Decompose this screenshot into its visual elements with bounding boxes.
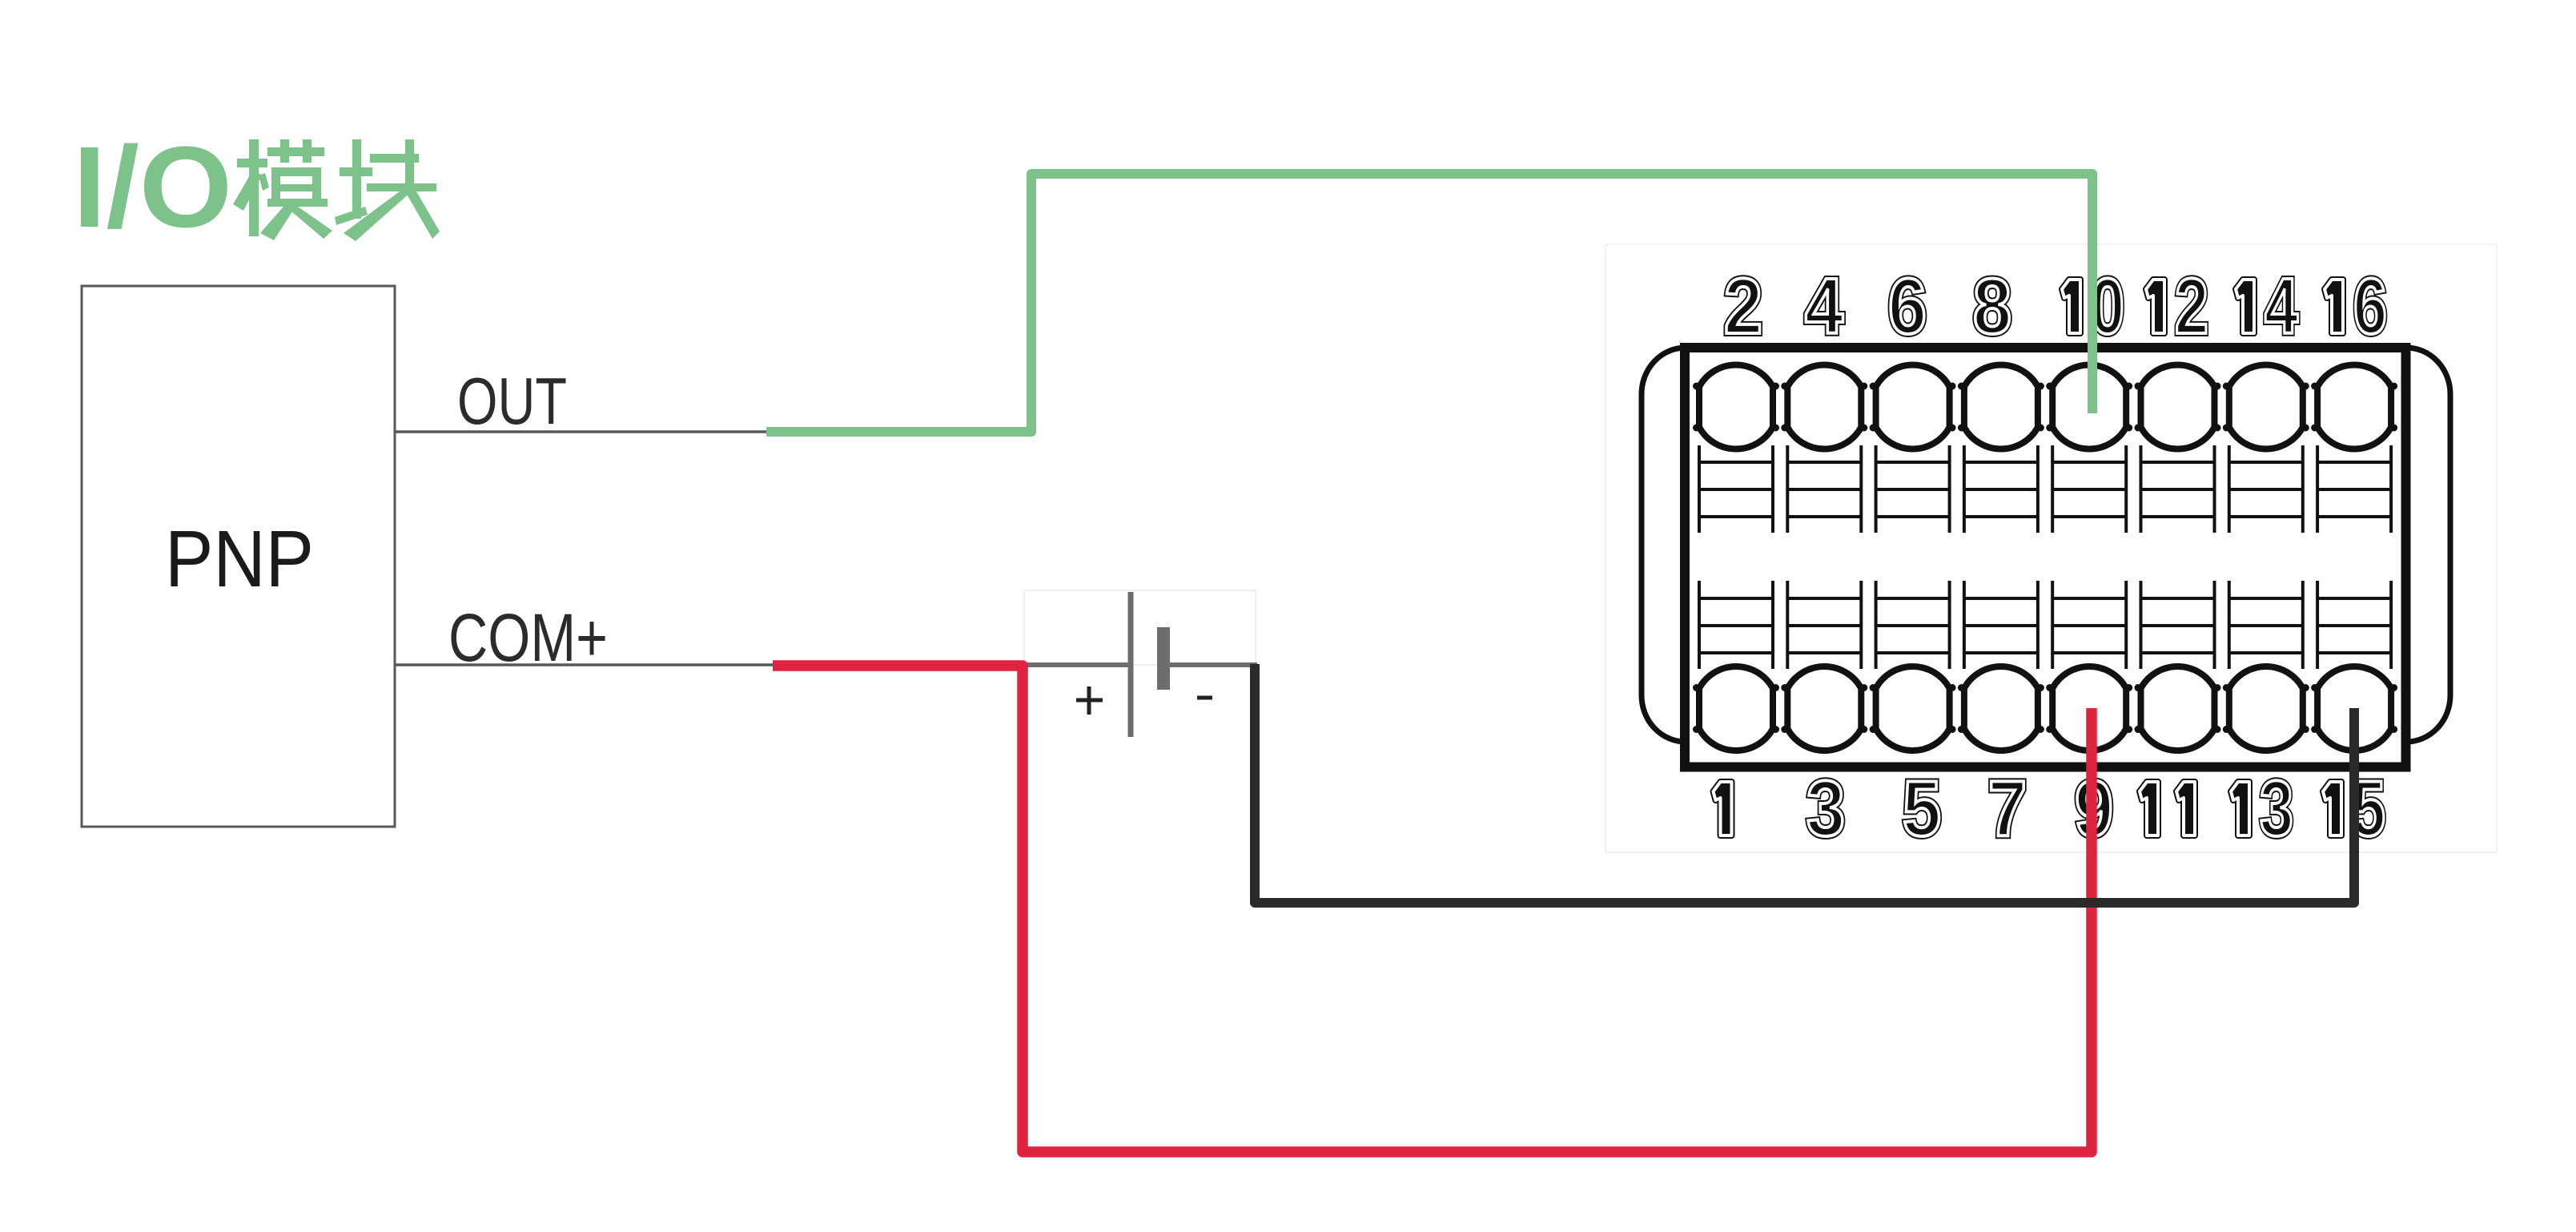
svg-text:COM+: COM+ bbox=[448, 600, 608, 675]
svg-text:PNP: PNP bbox=[165, 514, 314, 604]
svg-text:5: 5 bbox=[1903, 764, 1941, 852]
svg-text:3: 3 bbox=[2260, 764, 2293, 852]
svg-text:2: 2 bbox=[2175, 262, 2208, 350]
svg-text:I/O: I/O bbox=[73, 123, 232, 252]
svg-text:2: 2 bbox=[1724, 262, 1762, 350]
svg-text:4: 4 bbox=[1805, 262, 1843, 350]
svg-text:3: 3 bbox=[1806, 764, 1845, 852]
svg-text:7: 7 bbox=[1988, 764, 2027, 852]
svg-text:OUT: OUT bbox=[457, 364, 567, 438]
svg-text:8: 8 bbox=[1973, 262, 2011, 350]
svg-text:4: 4 bbox=[2265, 262, 2298, 350]
svg-text:6: 6 bbox=[1888, 262, 1927, 350]
svg-text:6: 6 bbox=[2353, 262, 2387, 350]
